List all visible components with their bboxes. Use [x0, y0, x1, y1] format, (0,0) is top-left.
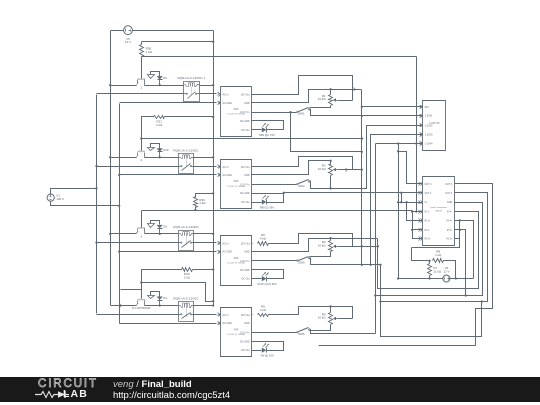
svg-text:AC GND: AC GND: [223, 102, 233, 105]
svg-text:IN 3+: IN 3+: [446, 238, 452, 241]
resistor R38 1k: [141, 42, 143, 45]
wire rail ch2 drain: [142, 138, 363, 140]
wire OUT4 wrap: [381, 193, 488, 302]
svg-text:OUT 4: OUT 4: [445, 192, 453, 195]
wire IN3+ bracket to R8: [455, 221, 460, 239]
wire switch SW1 output: [310, 110, 423, 116]
svg-text:IN 1+: IN 1+: [425, 219, 431, 222]
wire ch1 1-10V tap down: [291, 113, 362, 152]
svg-text:D20: D20: [163, 148, 169, 152]
svg-text:RQN-1A-C-12VDC 1: RQN-1A-C-12VDC 1: [177, 76, 205, 80]
wire IN2- stub: [413, 229, 423, 231]
wire R8 right: [444, 261, 456, 279]
wire R21 left to ch2 drain: [142, 117, 154, 151]
interface block CUSTOM: [423, 101, 446, 151]
wire IN3- riser: [455, 230, 466, 296]
wire ch4 gate stub: [121, 289, 142, 291]
wire V+ feed: [399, 202, 423, 204]
wire pot bottom to blade ch1: [310, 106, 331, 108]
svg-text:12V Out: 12V Out: [241, 94, 250, 97]
svg-text:GND: GND: [244, 251, 250, 254]
transistor Q2 (2): [138, 151, 145, 153]
wire ch2 wiper ext: [353, 169, 362, 171]
LED D4 load: [252, 350, 262, 352]
wire channel 1 C-line: [120, 102, 217, 104]
svg-text:10 kΩ: 10 kΩ: [318, 167, 327, 171]
wire IN4- wrap: [378, 212, 479, 289]
svg-text:AC In: AC In: [223, 166, 230, 169]
svg-text:DC Out: DC Out: [242, 278, 250, 281]
potentiometer R4 10k: [330, 307, 332, 313]
flyback diode D20 channel 2: [151, 144, 160, 149]
svg-text:12V Out: 12V Out: [241, 242, 250, 245]
switch SW6 channel 4: [252, 332, 297, 334]
wire top 12V rail from V5: [111, 30, 124, 32]
potentiometer R2 10k: [330, 161, 332, 165]
svg-text:GND: GND: [244, 102, 250, 105]
wire OUT3 wrap: [319, 184, 493, 346]
wire custom pin1: [362, 106, 423, 108]
op-amp block U5 LM339 quad comparator: [423, 177, 455, 246]
svg-text:1 kΩ: 1 kΩ: [199, 201, 206, 205]
svg-text:SW6: SW6: [298, 332, 305, 336]
resistor R6 4k in 12V line ch3: [252, 243, 253, 245]
svg-text:SW1: SW1: [298, 112, 305, 116]
svg-text:12 V: 12 V: [443, 269, 449, 273]
wire GND wrap: [376, 203, 483, 296]
wire channel 4 C-line: [120, 323, 217, 325]
svg-text:1-10V1: 1-10V1: [425, 115, 433, 118]
wire OUT1 to ch2 DC GND net: [284, 192, 423, 194]
wire pot feed line ch1: [252, 90, 362, 103]
LED D1 load: [252, 129, 262, 131]
svg-text:6CW (3x2) 36V: 6CW (3x2) 36V: [257, 282, 276, 286]
svg-text:1 kΩ: 1 kΩ: [435, 253, 442, 257]
wire channel 2 B-line: [97, 166, 179, 168]
wire pot bottom to blade ch4: [310, 325, 331, 331]
wire R38 top to bus: [142, 41, 214, 43]
svg-text:2 kΩ: 2 kΩ: [156, 123, 163, 127]
svg-text:AC In: AC In: [223, 314, 230, 317]
wire switch SW5 output: [310, 259, 381, 265]
svg-text:D5: D5: [163, 225, 167, 229]
svg-text:D4: D4: [163, 296, 167, 300]
svg-text:OUT 1: OUT 1: [425, 192, 433, 195]
wire V6 line: [399, 278, 443, 280]
svg-text:10 kΩ: 10 kΩ: [318, 244, 327, 248]
wire bus coil-return x=213: [213, 31, 215, 306]
wire channel 1 A-line: [111, 85, 137, 87]
wire channel 4 B-line: [97, 314, 179, 316]
svg-text:IN 1-: IN 1-: [425, 211, 430, 214]
wire channel 3 A-line: [111, 233, 137, 235]
svg-text:AC In: AC In: [223, 94, 230, 97]
svg-text:SW5: SW5: [298, 260, 305, 264]
wire rail ch1 drain: [142, 56, 417, 58]
wire OUT2 jog: [399, 152, 423, 184]
wire ch1 drain vertical: [141, 57, 143, 79]
wire ch3 drain vertical: [141, 211, 143, 228]
wire bus x=416 from rail1: [416, 57, 418, 212]
svg-text:IN 4+: IN 4+: [446, 219, 452, 222]
wire channel 4 A-line: [111, 305, 137, 307]
wire channel 1 coil to bus: [200, 85, 214, 87]
wire channel 2 C-line: [120, 174, 217, 176]
LED D2 load: [252, 202, 262, 204]
svg-text:12-24V @ 700mA: 12-24V @ 700mA: [227, 261, 245, 264]
wire wiper channel 1: [339, 100, 353, 102]
svg-text:12-24V @ 700mA: 12-24V @ 700mA: [227, 113, 245, 116]
svg-text:RQN-1A-C-12VDC: RQN-1A-C-12VDC: [173, 225, 199, 229]
wire channel 2 coil to bus: [194, 157, 214, 159]
wire wiper channel 3: [339, 246, 353, 248]
svg-text:DC Out: DC Out: [242, 349, 250, 352]
svg-text:Quad Comparator: Quad Comparator: [430, 206, 448, 209]
svg-text:SW3: SW3: [298, 184, 305, 188]
wire V1 minus to bus C: [51, 202, 120, 206]
wire left bus B x=96.5: [96, 95, 98, 314]
svg-text:12-24V @ 700mA: 12-24V @ 700mA: [227, 185, 245, 188]
wire channel 3 C-line: [120, 251, 217, 253]
svg-text:AC GND: AC GND: [223, 251, 233, 254]
svg-text:12-24V @ 700mA: 12-24V @ 700mA: [227, 333, 245, 336]
wire channel 2 A-line: [111, 157, 137, 159]
switch SW3 channel 2: [252, 184, 297, 186]
wire custom pin5: [376, 143, 423, 145]
svg-text:DC GND: DC GND: [240, 269, 250, 272]
switch SW5 channel 3: [252, 260, 297, 262]
svg-text:IN 3-: IN 3-: [447, 229, 452, 232]
svg-text:OUT 3: OUT 3: [445, 183, 453, 186]
svg-text:1-10V4: 1-10V4: [425, 143, 433, 146]
LED driver block U4: [221, 308, 252, 357]
relay K2 RQN-1A-C-12VDC: [179, 154, 194, 174]
relay K3 RQN-1A-C-12VDC: [179, 231, 194, 251]
LED driver block U1: [221, 87, 252, 137]
svg-text:RB (G) 36V: RB (G) 36V: [260, 205, 275, 209]
svg-text:12 V: 12 V: [125, 40, 131, 44]
resistor R7 11k: [429, 261, 431, 264]
wire pot bottom to blade ch2: [330, 176, 332, 189]
wire bracket down to R8 elbow: [412, 239, 460, 248]
wire pot feed line ch3: [252, 239, 378, 252]
resistor R5 4k in 12V line ch4: [252, 314, 253, 316]
wire pot feed line ch2: [252, 161, 331, 175]
svg-text:LM339: LM339: [435, 210, 442, 212]
svg-text:4 kΩ: 4 kΩ: [260, 308, 267, 312]
potentiometer R3 10k: [330, 239, 332, 241]
svg-text:XDR: XDR: [233, 108, 238, 111]
svg-text:RQN-1A-C-12VDC: RQN-1A-C-12VDC: [173, 297, 199, 301]
svg-text:100 V: 100 V: [56, 197, 64, 201]
flyback diode D4 channel 4: [151, 292, 160, 297]
transistor Q4 (T11 2N7000G52): [138, 299, 145, 301]
resistor R8 1k: [412, 248, 430, 261]
LED D3 load: [252, 278, 262, 280]
wire channel 2 12V out riser: [252, 157, 353, 170]
svg-text:AC In: AC In: [223, 242, 230, 245]
svg-text:10 kΩ: 10 kΩ: [318, 97, 327, 101]
wire OUT1 net to V+ jog: [401, 193, 403, 203]
wire wiper channel 2: [339, 169, 353, 171]
svg-text:OUT 2: OUT 2: [425, 183, 433, 186]
LED driver block U2: [221, 160, 252, 209]
svg-text:XDR: XDR: [233, 257, 238, 260]
flyback diode D6 channel 1: [151, 72, 160, 77]
svg-text:7W @ 10V: 7W @ 10V: [260, 354, 274, 358]
svg-text:GND: GND: [244, 174, 250, 177]
svg-text:XDR: XDR: [233, 328, 238, 331]
svg-text:12V Out: 12V Out: [241, 314, 250, 317]
switch SW1 channel 1: [252, 112, 297, 114]
svg-text:11 kΩ: 11 kΩ: [433, 269, 441, 273]
wire R20 left to ch4 drain: [142, 270, 182, 299]
wire left bus A x=110: [110, 31, 112, 306]
transistor Q1 (1): [138, 78, 145, 80]
svg-text:CUSTOM: CUSTOM: [429, 122, 439, 125]
wire IN1- riser from ch3 rail: [413, 211, 423, 239]
wire lower loop to 481.9 riser: [381, 302, 482, 337]
wire channel 1 12V out riser: [252, 76, 353, 101]
wire channel 1 B-line: [97, 93, 184, 95]
relay K1 RQN-1A-C-12VDC: [184, 82, 200, 102]
svg-text:MW @L 70V: MW @L 70V: [259, 133, 275, 137]
svg-text:GND: GND: [447, 201, 453, 204]
wire ch3 wiper to right bus: [353, 246, 378, 248]
svg-text:1 kΩ: 1 kΩ: [146, 50, 153, 54]
svg-text:4 kΩ: 4 kΩ: [260, 236, 267, 240]
wire switch SW6 output: [310, 330, 376, 334]
svg-text:DC Out: DC Out: [242, 129, 250, 132]
wire left bus C x=119.2: [119, 104, 121, 324]
svg-text:DC Out: DC Out: [242, 201, 250, 204]
voltage source V1 100V: [47, 194, 54, 201]
resistor R39 1k: [196, 194, 214, 198]
resistor R20 2k: [182, 268, 193, 272]
LED driver block U3: [221, 236, 252, 286]
wire channel 3 coil to bus: [194, 233, 214, 235]
wire R4 bottom rail: [319, 309, 476, 346]
wire V1 plus to bus B: [51, 189, 97, 195]
svg-text:DC GND: DC GND: [240, 192, 250, 195]
wire pot bottom to blade ch3: [310, 252, 331, 257]
svg-text:IN 2-: IN 2-: [425, 229, 430, 232]
svg-text:AC GND: AC GND: [223, 174, 233, 177]
svg-text:12V Out: 12V Out: [241, 166, 250, 169]
flyback diode D5 channel 3: [151, 221, 160, 225]
wire wiper channel 4: [339, 318, 353, 320]
svg-text:1-10V3: 1-10V3: [425, 133, 433, 136]
wire mid bus x=361.8: [361, 90, 363, 265]
wire rail ch3 drain: [195, 207, 197, 211]
svg-text:D6: D6: [163, 76, 167, 80]
wire rail ch4: [142, 283, 214, 302]
svg-text:IN 2+: IN 2+: [425, 238, 431, 241]
wire IN4+ to V6 ref: [455, 221, 474, 279]
svg-text:T11 2N7000G52: T11 2N7000G52: [132, 306, 152, 310]
svg-text:DC GND: DC GND: [240, 340, 250, 343]
wire mid bus x=375.2: [375, 144, 377, 334]
svg-text:DC GND: DC GND: [240, 120, 250, 123]
svg-text:IN 4-: IN 4-: [447, 211, 452, 214]
wire V+ bus down to V6: [398, 144, 400, 279]
wire switch SW3 output: [310, 126, 423, 189]
svg-text:2 kΩ: 2 kΩ: [184, 275, 191, 279]
wire channel 3 B-line: [97, 242, 179, 244]
svg-text:XDR: XDR: [233, 180, 238, 183]
relay K4 RQN-1A-C-12VDC: [179, 302, 194, 322]
wire channel 4 coil to bus: [194, 305, 214, 307]
svg-text:10 kΩ: 10 kΩ: [318, 316, 327, 320]
svg-text:GND: GND: [244, 322, 250, 325]
potentiometer R1 10k: [330, 90, 332, 95]
voltage source V5 12V: [124, 26, 133, 35]
wire IN1+ from V+: [407, 203, 423, 221]
svg-text:IN4: IN4: [425, 106, 429, 109]
svg-text:RQN-1A-C-12VDC: RQN-1A-C-12VDC: [173, 148, 199, 152]
transistor Q3 (3): [138, 227, 145, 229]
svg-text:AC GND: AC GND: [223, 322, 233, 325]
resistor R21 2k: [154, 116, 165, 119]
